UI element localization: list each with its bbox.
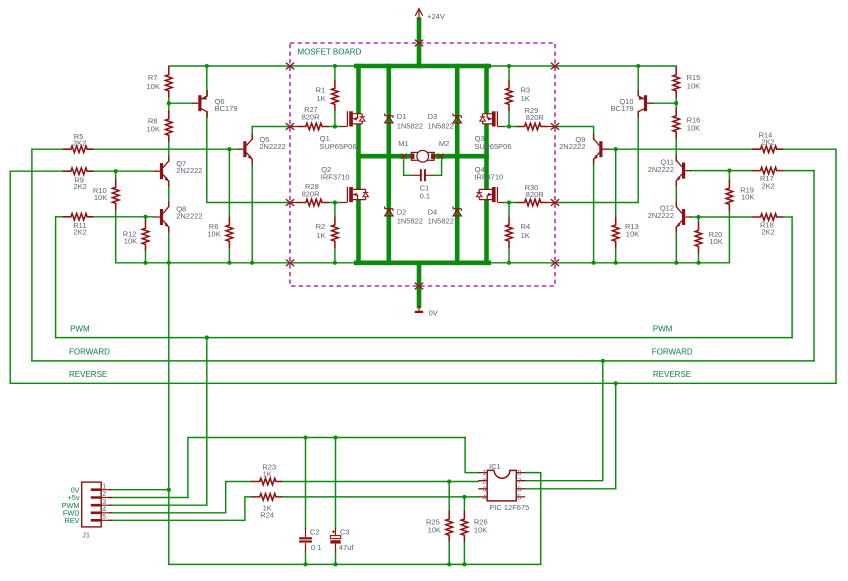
wire: Q10 emitter to top rail: [637, 66, 639, 96]
svg-text:SUP65P06: SUP65P06: [474, 142, 511, 151]
svg-text:820R: 820R: [302, 112, 321, 121]
junction: bottom 0V rail / R25: [447, 562, 451, 566]
transistor Q9: [594, 134, 609, 165]
wire: R26 leads: [463, 497, 465, 565]
diode D1: [385, 114, 393, 123]
svg-text:10K: 10K: [124, 236, 137, 245]
wire: R17 row to Q11 base: [691, 170, 753, 172]
wire: +24V bus bar top: [356, 64, 489, 69]
svg-text:FORWARD: FORWARD: [69, 348, 110, 357]
node X: R28 row crosses board left: [286, 199, 294, 206]
wire: Q9 collector to R29 row: [555, 127, 594, 140]
wire: +5v to IC1 pin1: [465, 438, 478, 473]
wire: Q11 emitter to Q12 collector: [675, 181, 677, 206]
svg-text:SUP65P06: SUP65P06: [319, 142, 356, 151]
svg-text:820R: 820R: [526, 113, 545, 122]
wire: R20 leads: [698, 217, 700, 263]
resistor R14: [752, 146, 783, 153]
svg-text:2N2222: 2N2222: [559, 142, 585, 151]
resistor R23: [252, 478, 283, 485]
svg-text:FORWARD: FORWARD: [652, 348, 693, 357]
svg-text:BC179: BC179: [611, 104, 634, 113]
wire: R15 bottom to Q10 base node: [675, 98, 677, 108]
svg-text:10K: 10K: [687, 82, 700, 91]
svg-text:2K2: 2K2: [73, 138, 86, 147]
junction: R2 / R28 row: [333, 200, 337, 204]
svg-text:6: 6: [518, 486, 522, 493]
svg-text:10K: 10K: [687, 124, 700, 133]
svg-text:2N2222: 2N2222: [176, 166, 202, 175]
resistor R24: [252, 494, 283, 501]
wire: C1 right leg: [433, 159, 441, 176]
svg-text:10K: 10K: [428, 526, 441, 535]
transistor Q7: [154, 156, 169, 187]
node X: top rail crosses board left: [286, 63, 294, 70]
resistor R18: [752, 214, 783, 221]
motor terminal pin M1: [401, 154, 407, 159]
wire: REVERSE line: [10, 382, 836, 384]
svg-text:D1: D1: [397, 112, 407, 121]
resistor R2: [332, 217, 339, 248]
wire: PWM right drop: [791, 217, 793, 338]
motor terminal pin M2: [438, 154, 444, 159]
wire: R25 leads: [448, 482, 450, 565]
wire: Q6 emitter to top rail: [206, 66, 208, 96]
wire: R14 right lead to REVERSE drop: [783, 148, 836, 150]
resistor R27: [298, 123, 329, 130]
junction: R13 / Q9 base row: [614, 147, 618, 151]
node X: R29 row crosses board right: [551, 123, 559, 130]
wire: R1 leads: [334, 66, 336, 127]
wire: D3/D4 leg: [455, 66, 460, 263]
junction: FORWARD / IC1 pin7 drop: [601, 359, 605, 363]
svg-text:1N5822: 1N5822: [397, 217, 423, 226]
junction: PWM / J1 pin3 drop: [205, 336, 209, 340]
junction: Q9 emitter / ground rail: [592, 261, 596, 265]
wire: C3 legs: [335, 438, 337, 565]
wire: R9 left lead: [10, 170, 63, 172]
motor M: [411, 150, 434, 162]
junction: R13 / ground rail: [614, 261, 618, 265]
svg-text:IRF3710: IRF3710: [474, 173, 503, 182]
mosfet Q4: [476, 187, 503, 203]
wire: R5 left lead to FORWARD drop: [32, 148, 63, 150]
resistor R20: [695, 222, 702, 253]
svg-text:2K2: 2K2: [762, 181, 775, 190]
wire: 0V bus bar bottom: [356, 260, 489, 265]
junction: J1 pin1 / 0V drop: [167, 488, 171, 492]
svg-text:+24V: +24V: [427, 12, 445, 21]
wire: J1 pin2 to +5v rail: [110, 497, 188, 499]
resistor R25: [446, 511, 453, 542]
junction: R6 / Q5 base row: [227, 147, 231, 151]
svg-text:2N2222: 2N2222: [259, 142, 285, 151]
wire: R6 leads: [228, 149, 230, 263]
wire: J1 pin1 to 0V net: [110, 489, 169, 491]
svg-text:4: 4: [102, 506, 106, 513]
svg-text:2: 2: [482, 478, 486, 485]
diode D4: [453, 207, 461, 216]
svg-text:IRF3710: IRF3710: [321, 173, 350, 182]
resistor R9: [63, 168, 94, 175]
node X: 0V stem crosses board bottom: [415, 283, 423, 290]
junction: R2 / ground rail: [333, 261, 337, 265]
wire: motor M1 lead: [359, 154, 410, 159]
mosfet Q2: [341, 187, 368, 203]
svg-text:5: 5: [518, 495, 522, 502]
transistor Q10: [638, 90, 653, 118]
wire: R29 to Q3 gate: [503, 126, 516, 128]
wire: C1 left leg: [404, 159, 413, 176]
junction: bottom 0V rail / R26: [462, 562, 466, 566]
svg-text:2K2: 2K2: [762, 228, 775, 237]
wire: R27 to Q1 gate: [328, 126, 341, 128]
wire: Q10 base node: [653, 102, 676, 104]
junction: R12 / ground rail: [143, 261, 147, 265]
wire: node to R8 top: [168, 103, 170, 111]
svg-text:2: 2: [102, 491, 106, 498]
junction: R15/R16/Q10 base node: [674, 101, 678, 105]
resistor R7: [166, 67, 173, 98]
svg-text:5: 5: [102, 514, 106, 521]
svg-text:10K: 10K: [147, 82, 160, 91]
wire: ground rail: [116, 262, 730, 264]
svg-text:0V: 0V: [429, 308, 438, 317]
svg-text:C2: C2: [310, 528, 320, 537]
node X: R27 row crosses board left: [286, 123, 294, 130]
svg-text:R4: R4: [521, 222, 531, 231]
wire: IC1 pin7 to FORWARD: [525, 361, 603, 481]
svg-text:1K: 1K: [317, 231, 326, 240]
svg-text:820R: 820R: [526, 190, 545, 199]
wire: R28 to Q2 gate: [328, 202, 341, 204]
svg-text:R3: R3: [521, 85, 531, 94]
resistor R1: [332, 80, 339, 111]
svg-text:1N5822: 1N5822: [428, 217, 454, 226]
svg-text:PIC 12F675: PIC 12F675: [489, 503, 529, 512]
capacitor C3 (polarized): [330, 528, 340, 551]
wire: +24V top rail: [169, 65, 676, 67]
wire: REVERSE right drop: [835, 149, 837, 383]
resistor R3: [506, 80, 513, 111]
wire: R17 right lead: [783, 170, 814, 172]
svg-text:1K: 1K: [263, 469, 272, 478]
wire: J1 pin5 up to R24: [110, 497, 252, 520]
resistor R10: [112, 179, 119, 210]
wire: R9 to Q7 base: [94, 170, 154, 172]
svg-text:1N5822: 1N5822: [397, 122, 423, 131]
wire: REVERSE left drop: [9, 171, 11, 383]
mosfet Q3: [480, 111, 504, 126]
svg-text:R2: R2: [316, 222, 326, 231]
wire: Q5 collector to R27 row: [252, 127, 290, 140]
wire: R11 to Q8 base: [94, 216, 154, 218]
transistor Q11: [676, 155, 691, 186]
resistor R19: [726, 180, 733, 211]
svg-text:2N2222: 2N2222: [648, 211, 674, 220]
svg-text:7: 7: [518, 478, 522, 485]
junction: Q5 emitter / ground rail: [250, 261, 254, 265]
IC U1 PIC 12F675 body: [478, 470, 525, 501]
svg-text:M1: M1: [398, 139, 408, 148]
resistor R30: [516, 199, 547, 206]
svg-text:PWM: PWM: [70, 324, 90, 333]
svg-text:1K: 1K: [521, 231, 530, 240]
MOSFET BOARD dashed outline: [290, 43, 555, 286]
wire: R5 to Q5 base: [94, 148, 237, 150]
capacitor C1: [413, 169, 434, 181]
mosfet Q1: [341, 111, 365, 126]
junction: Q6 emitter / top rail: [205, 64, 209, 68]
svg-text:D4: D4: [428, 208, 438, 217]
resistor R15: [673, 67, 680, 98]
svg-text:2N2222: 2N2222: [648, 165, 674, 174]
svg-text:2K2: 2K2: [762, 138, 775, 147]
resistor R11: [63, 214, 94, 221]
wire: Q7 emitter to Q8 collector: [168, 181, 170, 206]
svg-text:10K: 10K: [626, 230, 639, 239]
wire: R4 leads: [508, 203, 510, 263]
svg-text:10K: 10K: [147, 124, 160, 133]
junction: R20 / R18 row: [696, 215, 700, 219]
wire: left bridge rail segments (broken at Q1/Q2 pins): [356, 64, 361, 265]
svg-text:R24: R24: [260, 510, 274, 519]
wire: Q6 collector down and right to R28: [207, 112, 290, 203]
wire: motor M2 lead: [436, 154, 487, 159]
resistor R12: [142, 220, 149, 251]
transistor Q12: [676, 202, 691, 233]
wire: R30 to Q4 gate: [503, 202, 516, 204]
junction: Q10 emitter / top rail: [636, 64, 640, 68]
resistor R26: [461, 511, 468, 542]
svg-text:D3: D3: [428, 112, 438, 121]
wire: FORWARD left drop: [31, 149, 33, 361]
svg-text:1K: 1K: [521, 94, 530, 103]
wire: R23 to IC1 pin2: [283, 481, 479, 483]
wire: R13 leads: [615, 149, 617, 263]
svg-text:IC1: IC1: [489, 462, 501, 471]
transistor Q8: [154, 202, 169, 233]
node X: +24V stem crosses board top: [415, 40, 423, 47]
resistor R8: [166, 111, 173, 142]
junction: Q8 emitter / ground rail: [167, 261, 171, 265]
junction: bottom 0V rail / C2: [303, 562, 307, 566]
wire: R24 to IC1 pin4: [283, 496, 479, 498]
wire: FORWARD line: [32, 360, 814, 362]
resistor R17: [752, 167, 783, 174]
wire: R10 leads: [115, 171, 117, 263]
wire: PWM left drop: [55, 217, 57, 338]
svg-text:0.1: 0.1: [420, 191, 430, 200]
junction: +5v rail / C2: [303, 435, 307, 439]
resistor R29: [516, 123, 547, 130]
svg-text:2K2: 2K2: [74, 182, 87, 191]
junction: R3 / R29 row: [507, 124, 511, 128]
wire: 0V stem: [417, 263, 422, 306]
svg-text:REVERSE: REVERSE: [653, 370, 691, 379]
svg-text:1K: 1K: [317, 94, 326, 103]
svg-text:0.1: 0.1: [311, 543, 321, 552]
wire: R11 left lead: [56, 216, 63, 218]
junction: R19 / R17 row: [727, 169, 731, 173]
junction: +5v rail / C3: [333, 435, 337, 439]
wire: D1/D2 leg: [386, 66, 391, 263]
svg-text:10K: 10K: [709, 237, 722, 246]
resistor R6: [226, 217, 233, 248]
junction: R4 / R30 row: [507, 200, 511, 204]
node X: ground rail crosses board right: [551, 260, 559, 267]
wire: +5v rail: [188, 438, 465, 498]
svg-text:MOSFET BOARD: MOSFET BOARD: [298, 48, 362, 57]
wire: Q5 emitter to ground rail: [251, 159, 253, 263]
wire: FORWARD right drop: [813, 171, 815, 361]
resistor R5: [63, 146, 94, 153]
junction: REVERSE / IC1 pin6 drop: [614, 381, 618, 385]
wire: 0V bottom rail: [169, 563, 541, 565]
+24V supply arrow: [415, 9, 422, 20]
junction: R23 row / R25: [447, 479, 451, 483]
junction: R1 / R27 row: [333, 124, 337, 128]
wire: Q12 emitter to ground rail: [675, 227, 677, 263]
svg-text:3: 3: [482, 486, 486, 493]
svg-text:1: 1: [102, 483, 106, 490]
resistor R28: [298, 199, 329, 206]
node X: ground rail crosses board left: [286, 260, 294, 267]
svg-text:8: 8: [518, 470, 522, 477]
svg-text:J1: J1: [82, 530, 90, 539]
junction: R12 / R11 row: [143, 215, 147, 219]
wire: IC1 pin8 to ground: [525, 473, 541, 565]
wire: R12 leads: [145, 217, 147, 263]
junction: R7/R8/Q6 base node: [167, 101, 171, 105]
connector J1: [82, 482, 112, 527]
svg-text:10K: 10K: [474, 526, 487, 535]
wire: J1 pin4 up to R23: [110, 482, 252, 513]
wire: IC1 pin6 to REVERSE: [525, 383, 616, 489]
transistor Q5: [237, 134, 252, 165]
ground 0V symbol: [415, 306, 423, 312]
svg-text:BC179: BC179: [215, 104, 238, 113]
junction: R3 / top rail: [507, 64, 511, 68]
svg-text:D2: D2: [397, 208, 407, 217]
node X: R30 row crosses board right: [551, 199, 559, 206]
wire: R3 leads: [508, 66, 510, 127]
wire: C2 legs: [305, 438, 307, 565]
svg-text:3: 3: [102, 499, 106, 506]
wire: PWM line: [56, 337, 793, 339]
resistor R4: [506, 217, 513, 248]
svg-text:10K: 10K: [741, 192, 754, 201]
wire: Q9 emitter to ground rail: [593, 159, 595, 263]
resistor R13: [612, 217, 619, 248]
junction: R20 / ground rail: [696, 261, 700, 265]
diode D2: [385, 207, 393, 216]
wire: R19 leads: [728, 171, 730, 263]
node X: top rail crosses board right: [551, 63, 559, 70]
junction: R4 / ground rail: [507, 261, 511, 265]
wire: R18 right lead: [783, 216, 792, 218]
junction: R6 / ground rail: [227, 261, 231, 265]
diode D3: [453, 114, 461, 123]
capacitor C2: [299, 528, 312, 551]
wire: R18 row to Q12 base: [691, 216, 753, 218]
junction: R10 / R9 row: [114, 169, 118, 173]
wire: R8 bottom to Q7 collector: [168, 141, 170, 161]
svg-text:4: 4: [482, 495, 486, 502]
svg-text:2K2: 2K2: [74, 228, 87, 237]
wire: right bridge rail segments (broken at Q3/Q4 pins): [484, 64, 489, 265]
transistor Q6: [192, 90, 207, 118]
resistor R16: [673, 108, 680, 139]
wire: Q9 base row to R14: [609, 148, 753, 150]
svg-text:47uf: 47uf: [339, 543, 355, 552]
wire: node to Q6 base: [169, 102, 192, 104]
wire: R7 bottom to node: [168, 98, 170, 104]
wire: J1 pin3 to PWM line: [110, 338, 207, 506]
wire: R2 leads: [334, 203, 336, 263]
junction: Q12 emitter / ground rail: [674, 261, 678, 265]
svg-text:REVERSE: REVERSE: [69, 370, 107, 379]
svg-text:10K: 10K: [94, 193, 107, 202]
svg-text:1N5822: 1N5822: [428, 122, 454, 131]
wire: Q8 emitter to 0V bottom rail: [168, 227, 170, 564]
svg-text:REV: REV: [64, 516, 79, 525]
junction: bottom 0V rail / C3: [333, 562, 337, 566]
svg-text:1: 1: [482, 470, 486, 477]
svg-text:820R: 820R: [302, 189, 321, 198]
svg-text:2N2222: 2N2222: [176, 212, 202, 221]
svg-text:C3: C3: [340, 528, 350, 537]
svg-text:R1: R1: [316, 85, 326, 94]
junction: R24 row / R26: [462, 495, 466, 499]
svg-text:10K: 10K: [207, 230, 220, 239]
svg-text:M2: M2: [439, 139, 449, 148]
wire: R16 bottom to Q11 collector: [675, 139, 677, 162]
junction: R1 / top rail: [333, 64, 337, 68]
wire: +24V feed stem: [417, 20, 422, 67]
wire: Q10 collector down to R30 row: [555, 112, 638, 203]
svg-text:PWM: PWM: [653, 324, 673, 333]
